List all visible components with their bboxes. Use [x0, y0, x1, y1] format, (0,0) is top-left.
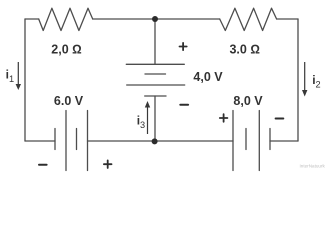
svg-text:InterNatuurk: InterNatuurk [300, 164, 326, 169]
wire left vertical [24, 19, 26, 141]
svg-text:i2: i2 [312, 73, 320, 90]
battery V1 6.0V tall plate 1 [65, 111, 67, 171]
svg-text:3.0 Ω: 3.0 Ω [229, 42, 259, 56]
wire middle branch upper [154, 19, 156, 64]
battery V3 4,0V short plate 2 [145, 95, 166, 97]
svg-text:i1: i1 [6, 67, 14, 84]
svg-text:4,0 V: 4,0 V [193, 70, 223, 84]
wire top-right horizontal [277, 18, 298, 20]
wire right vertical [297, 19, 299, 141]
wire bottom middle [88, 140, 234, 142]
svg-text:8,0 V: 8,0 V [233, 94, 263, 108]
battery V2 8,0V tall plate 2 [258, 111, 260, 171]
current arrow i3 [145, 101, 150, 134]
wire middle branch lower [154, 96, 156, 141]
svg-text:2,0 Ω: 2,0 Ω [51, 42, 81, 56]
resistor R1 (2,0 ohm) [39, 8, 93, 30]
node B bottom junction [152, 138, 158, 144]
battery V1 6.0V tall plate 2 [87, 111, 89, 171]
current arrow i2 [302, 62, 307, 97]
current arrow i1 [16, 62, 21, 90]
battery V3 4,0V short plate 1 [145, 73, 166, 75]
polarity minus V1 left [39, 164, 47, 166]
polarity minus V2 right [276, 118, 284, 120]
battery V3 4,0V long plate 1 [126, 63, 184, 65]
battery V1 6.0V short plate left [54, 129, 56, 150]
battery V2 8,0V tall plate 1 [232, 111, 234, 171]
wire top middle [93, 18, 220, 20]
polarity plus V3 top [180, 43, 187, 50]
wire top-left horizontal [25, 18, 39, 20]
battery V2 8,0V short plate right [269, 129, 271, 150]
battery V2 8,0V short plate middle [245, 129, 247, 150]
resistor R2 (3.0 ohm) [220, 8, 277, 30]
polarity plus V2 left [220, 114, 228, 122]
polarity plus V1 right [104, 160, 112, 168]
svg-text:i3: i3 [137, 113, 145, 130]
polarity minus V3 bottom [180, 104, 188, 106]
battery V1 6.0V short plate middle [76, 129, 78, 150]
wire bottom-left horizontal [25, 140, 55, 142]
wire bottom-right horizontal [270, 140, 298, 142]
battery V3 4,0V long plate 2 [127, 84, 185, 86]
node A top junction [152, 16, 158, 22]
svg-text:6.0 V: 6.0 V [54, 94, 84, 108]
